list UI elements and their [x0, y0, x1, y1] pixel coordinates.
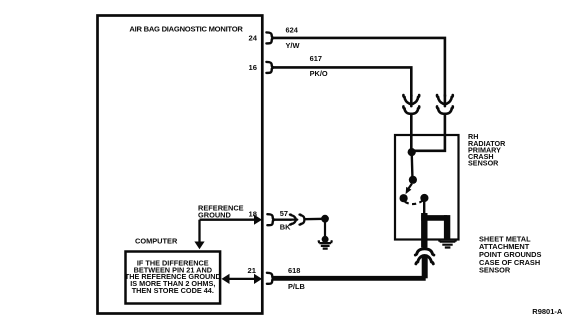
wire 57 from connector to ground node	[304, 218, 325, 221]
svg-text:57: 57	[280, 209, 288, 218]
connector bracket at pin 16	[266, 62, 273, 73]
inline connector on wire 57: male arrow (right)	[290, 215, 297, 225]
crash sensor box	[395, 135, 459, 240]
wire: junction down to ground G1	[324, 219, 326, 238]
connector bracket at pin 24	[266, 32, 273, 43]
inline connector on wire 57: female cup	[300, 215, 305, 225]
connector bracket at pin 18	[267, 214, 274, 225]
ground G1 symbol	[319, 240, 332, 248]
inline connector on wire 618: female cup (down-facing)	[415, 249, 434, 255]
wire 57 BK	[274, 218, 292, 220]
svg-text:24: 24	[249, 34, 258, 43]
connector bracket at pin 21	[267, 273, 274, 284]
thick case-ground trace in sensor	[421, 213, 427, 248]
switch stationary contact A	[400, 194, 408, 202]
svg-text:COMPUTER: COMPUTER	[135, 237, 178, 246]
wire: contact B down to case ground trace	[423, 198, 425, 216]
svg-text:16: 16	[249, 63, 257, 72]
switch pivot contact	[409, 176, 417, 184]
svg-text:624: 624	[286, 26, 299, 35]
reference ground pointer: drop to computer box with down arrowhead	[198, 220, 200, 244]
wire 624 from connector into sensor	[412, 114, 445, 151]
inline connector on wire 618: male arrow (up)	[416, 255, 433, 264]
svg-text:P/LB: P/LB	[288, 282, 305, 291]
node: sensor input junction	[408, 148, 416, 156]
node: wire 57 ground junction	[321, 215, 329, 223]
svg-text:617: 617	[310, 54, 322, 63]
chassis ground: sensor case	[439, 239, 456, 248]
inline connector on wire 617: male arrow (down)	[403, 95, 419, 106]
wire: junction to switch pivot	[411, 152, 414, 180]
double-headed arrow: computer to pin 21	[225, 278, 258, 280]
wire 617 from connector into sensor	[410, 114, 413, 152]
svg-text:618: 618	[288, 266, 300, 275]
wire 617 PK/O	[273, 67, 412, 96]
computer note box	[126, 252, 221, 304]
dashed gang link	[405, 201, 423, 204]
module box U1: AIR BAG DIAGNOSTIC MONITOR	[98, 16, 263, 314]
reference ground pointer: line to pin 18 with right arrowhead	[200, 219, 257, 221]
wire 624 Y/W	[273, 38, 445, 97]
inline connector on wire 624: male arrow (down)	[437, 95, 453, 106]
wire 618 P/LB (thick)	[422, 255, 428, 279]
svg-text:PK/O: PK/O	[310, 69, 328, 78]
svg-text:AIR BAG DIAGNOSTIC MONITOR: AIR BAG DIAGNOSTIC MONITOR	[129, 25, 243, 34]
svg-text:IF THE DIFFERENCEBETWEEN PIN 2: IF THE DIFFERENCEBETWEEN PIN 21 ANDTHE R…	[125, 259, 221, 295]
svg-text:Y/W: Y/W	[286, 41, 300, 50]
inline connector on wire 624: female cup	[437, 106, 453, 113]
svg-text:21: 21	[248, 266, 257, 275]
switch stationary contact B	[420, 194, 428, 202]
switch arm (open, arrow toward contact)	[409, 184, 412, 189]
ground G1 terminal dot	[322, 236, 329, 243]
svg-text:R9801-A: R9801-A	[532, 307, 563, 316]
inline connector on wire 617: female cup	[403, 106, 419, 113]
